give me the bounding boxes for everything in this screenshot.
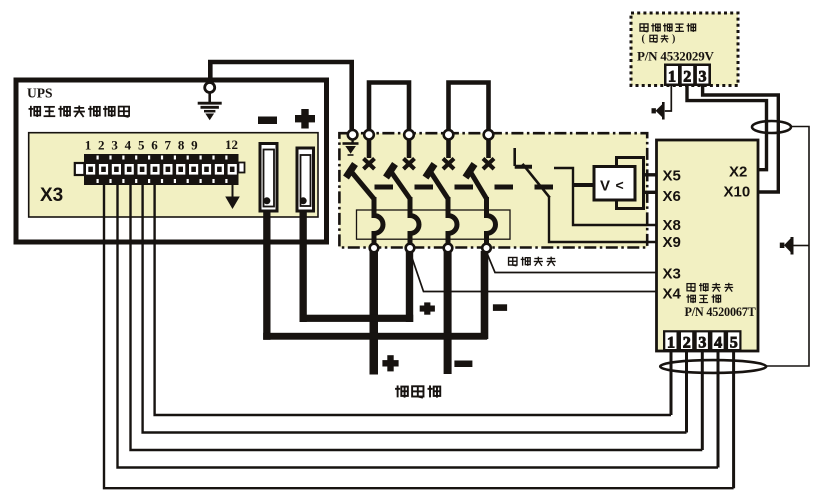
svg-text:1: 1: [85, 138, 92, 153]
svg-text:V: V: [600, 178, 610, 195]
svg-text:2: 2: [683, 335, 691, 352]
svg-text:X2: X2: [729, 164, 747, 181]
svg-text:4: 4: [125, 138, 132, 153]
svg-text:X6: X6: [663, 188, 681, 205]
svg-text:2: 2: [683, 69, 691, 86]
svg-text:9: 9: [191, 138, 198, 153]
svg-text:X9: X9: [663, 234, 681, 251]
svg-text:X3: X3: [40, 185, 63, 206]
svg-text:3: 3: [698, 335, 706, 352]
svg-text:8: 8: [178, 138, 185, 153]
svg-text:5: 5: [138, 138, 145, 153]
svg-text:4: 4: [714, 335, 722, 352]
svg-text:2: 2: [98, 138, 105, 153]
svg-text:1: 1: [668, 69, 676, 86]
svg-text:7: 7: [165, 138, 172, 153]
svg-text:3: 3: [699, 69, 707, 86]
svg-text:X5: X5: [663, 168, 681, 185]
svg-text:3: 3: [111, 138, 118, 153]
svg-text:X3: X3: [663, 266, 681, 283]
svg-text:6: 6: [151, 138, 158, 153]
svg-text:UPS: UPS: [27, 86, 53, 101]
svg-text:P/N 4520067T: P/N 4520067T: [685, 305, 756, 319]
svg-text:12: 12: [225, 137, 238, 152]
svg-text:X4: X4: [663, 286, 682, 303]
svg-text:P/N 4532029V: P/N 4532029V: [637, 49, 714, 64]
svg-text:): ): [672, 34, 675, 45]
svg-text:5: 5: [730, 335, 738, 352]
svg-text:X8: X8: [663, 217, 681, 234]
svg-text:1: 1: [667, 335, 675, 352]
svg-text:<: <: [616, 177, 624, 193]
svg-text:X10: X10: [724, 184, 751, 201]
